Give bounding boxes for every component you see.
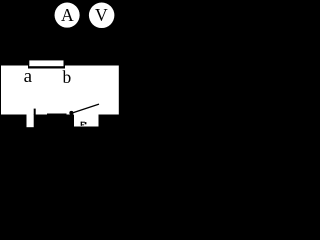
background [0, 0, 124, 137]
resistor R (component rectangle) [28, 59, 65, 69]
voltmeter V [89, 3, 115, 29]
box (device body) [1, 66, 119, 115]
switch pivot dot [69, 111, 73, 115]
wire (left terminal stub) [34, 109, 36, 115]
switch label c [81, 122, 87, 126]
ammeter A [55, 3, 80, 28]
svg-text:V: V [95, 5, 108, 25]
notch below box around switch label c [74, 110, 99, 127]
notch below box around left wire [27, 110, 34, 127]
switch lever (open) [71, 104, 99, 113]
svg-text:b: b [63, 67, 72, 87]
box bottom edge step (darker ledge under box, x 48-66) [47, 114, 67, 115]
svg-text:A: A [61, 5, 74, 25]
svg-text:a: a [24, 66, 33, 87]
